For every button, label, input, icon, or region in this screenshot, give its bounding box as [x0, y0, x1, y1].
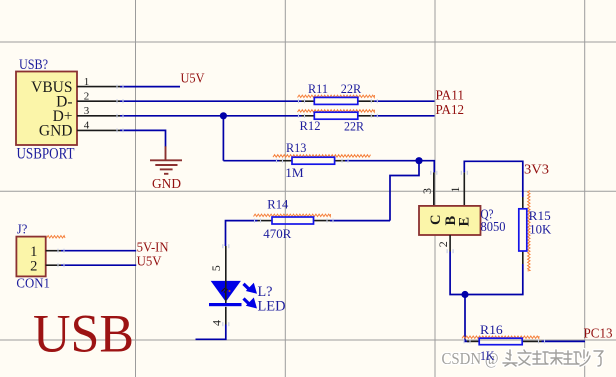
value 8050 of Q? — [481, 219, 506, 234]
svg-text:USB?: USB? — [19, 57, 48, 73]
designator USB? — [19, 57, 48, 73]
LED L? symbol — [209, 281, 242, 306]
designator R13 — [286, 140, 306, 155]
svg-text:1M: 1M — [285, 165, 304, 180]
wire R15 bottom to base node — [450, 252, 523, 295]
svg-text:R11: R11 — [308, 81, 328, 96]
resistor R11 — [298, 95, 375, 104]
svg-text:22R: 22R — [341, 81, 362, 96]
pin-end markers (faint) — [58, 85, 545, 344]
svg-text:22R: 22R — [344, 118, 364, 133]
designator R14 — [267, 196, 288, 211]
svg-text:5: 5 — [209, 265, 223, 271]
value 470R of R14 — [263, 226, 291, 241]
transistor Q? pin 3 (collector) — [420, 172, 434, 206]
svg-text:R16: R16 — [480, 322, 503, 337]
wire J? pin2 to U5V — [61, 264, 136, 266]
value 22R of R12 — [344, 118, 364, 133]
wire net PA11 (D-) to R11 — [120, 100, 302, 102]
LED L? pin 5 (anode) — [209, 246, 226, 303]
wire junction step down to R14 — [390, 161, 419, 221]
pin 1 VBUS of USB? — [31, 76, 120, 96]
wire LED cathode down-left — [196, 325, 226, 340]
wire R11 to PA11 — [374, 100, 434, 102]
net label PA12 — [436, 102, 465, 117]
pin 4 GND of USB? — [39, 120, 120, 140]
svg-text:USB: USB — [33, 304, 134, 364]
connector J? (CON1) body — [16, 237, 45, 277]
svg-text:470R: 470R — [263, 226, 291, 241]
svg-text:2: 2 — [84, 90, 90, 102]
svg-text:GND: GND — [39, 123, 73, 140]
svg-text:10K: 10K — [529, 222, 552, 237]
wire J? pin1 to 5V-IN — [61, 250, 136, 252]
watermark CSDN @头发越来越少了 — [442, 349, 604, 368]
wire net U5V from USB pin1 — [120, 86, 180, 88]
ground GND symbol — [150, 146, 182, 174]
LED emission arrows — [244, 283, 258, 309]
junction on D+ net — [220, 112, 227, 119]
net label PA11 — [436, 87, 465, 102]
wire emitter to 3V3 and R15 top — [464, 161, 523, 197]
LED L? pin 4 (cathode) — [209, 307, 226, 326]
svg-text:LED: LED — [258, 299, 286, 315]
net label U5V (lower) — [137, 254, 162, 269]
wire D+ to R13 left — [223, 160, 279, 162]
svg-text:5V-IN: 5V-IN — [137, 239, 169, 254]
transistor Q? pin 1 (emitter) — [448, 172, 465, 206]
connector USB? (USBPORT) body — [16, 72, 77, 146]
wire LED anode to R14 — [226, 221, 258, 246]
value 22R of R11 — [341, 81, 362, 96]
svg-text:1: 1 — [448, 187, 462, 193]
svg-text:1: 1 — [84, 76, 90, 88]
svg-text:4: 4 — [209, 320, 223, 326]
transistor Q? body — [419, 206, 481, 235]
svg-text:E: E — [457, 217, 473, 227]
part name USBPORT — [17, 145, 75, 162]
wire base node down to R16 — [465, 295, 469, 342]
svg-text:C: C — [428, 215, 444, 225]
svg-text:2: 2 — [436, 241, 450, 247]
junction base node — [461, 291, 468, 298]
svg-text:GND: GND — [152, 176, 181, 191]
svg-text:8050: 8050 — [481, 219, 506, 234]
svg-text:PA11: PA11 — [436, 87, 465, 102]
designator L? — [258, 284, 273, 300]
wire R13 to Q collector — [345, 161, 434, 173]
wire D+ junction down to R13 — [222, 116, 224, 161]
value 1K of R16 — [480, 348, 495, 363]
wire R16 to PC13 — [542, 340, 586, 342]
designator R12 — [300, 118, 321, 133]
wire R14 to junction step — [330, 220, 390, 222]
part name LED — [258, 299, 286, 315]
resistor R13 — [273, 155, 371, 165]
svg-text:J?: J? — [17, 222, 28, 237]
resistor R15 (vertical) — [519, 190, 530, 271]
value 1M of R13 — [285, 165, 304, 180]
svg-text:2: 2 — [30, 258, 37, 274]
pin 2 of J? net U5V — [30, 258, 61, 274]
net label GND — [152, 176, 181, 191]
svg-text:U5V: U5V — [181, 71, 205, 86]
designator R15 — [529, 208, 551, 223]
designator R11 — [308, 81, 328, 96]
net label 3V3 — [524, 162, 549, 177]
wire USB pin4 to ground — [120, 130, 166, 146]
svg-text:3: 3 — [84, 105, 90, 117]
svg-text:R13: R13 — [286, 140, 306, 155]
wire R12 to PA12 — [374, 115, 434, 117]
svg-text:U5V: U5V — [137, 254, 162, 269]
svg-text:PC13: PC13 — [584, 326, 613, 341]
svg-text:R12: R12 — [300, 118, 321, 133]
net label U5V — [181, 71, 205, 86]
designator R16 — [480, 322, 503, 337]
transistor Q? pin 2 (base) — [436, 235, 450, 252]
net label 5V-IN — [137, 239, 169, 254]
wire net PA12 (D+) to R12 — [120, 115, 302, 117]
pin 2 D- of USB? — [56, 90, 120, 110]
svg-text:3: 3 — [420, 188, 434, 194]
svg-text:3V3: 3V3 — [524, 162, 549, 177]
sheet title USB — [33, 304, 134, 364]
designator J? — [17, 222, 28, 237]
pin 3 D+ of USB? — [53, 105, 120, 125]
resistor R14 — [254, 214, 331, 224]
net label PC13 — [584, 326, 613, 341]
part name CON1 — [16, 276, 50, 291]
svg-text:1K: 1K — [480, 348, 495, 363]
resistor R12 — [298, 110, 375, 120]
svg-text:USBPORT: USBPORT — [17, 145, 75, 162]
value 10K of R15 — [529, 222, 552, 237]
junction R13/R14/Q node — [415, 157, 422, 164]
pin 1 of J? net 5V-IN — [30, 244, 61, 260]
designator Q? — [481, 207, 494, 222]
svg-text:R14: R14 — [267, 196, 288, 211]
svg-text:CON1: CON1 — [16, 276, 50, 291]
error squiggle at J? — [47, 236, 66, 238]
svg-text:PA12: PA12 — [436, 102, 465, 117]
resistor R16 — [462, 336, 542, 345]
svg-text:4: 4 — [84, 120, 90, 132]
